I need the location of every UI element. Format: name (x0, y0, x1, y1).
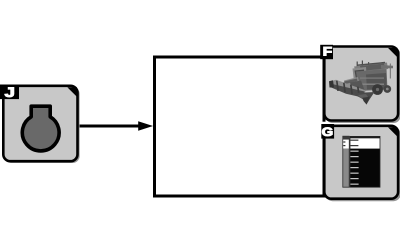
icon box G (324, 126, 400, 201)
header end plate (329, 80, 334, 87)
grain tank rail (357, 62, 385, 66)
front wheel hub (376, 88, 379, 91)
fill level gauge icon (icon in box G) (343, 136, 380, 187)
wire (arrow shaft from box J to rectangle) (78, 125, 140, 128)
grain tank top (354, 63, 388, 73)
front wheel (372, 84, 383, 95)
unloading auger line (381, 65, 393, 69)
arrowhead (138, 121, 153, 130)
beard tip (363, 97, 371, 105)
body (356, 69, 388, 91)
white ticks on black area (350, 151, 358, 152)
gauge body (350, 136, 380, 187)
label G (321, 124, 334, 139)
body texture lines (358, 84, 384, 85)
cab (353, 67, 368, 82)
cab window (355, 70, 365, 80)
header light top edge (330, 80, 367, 93)
white gap patch between box F and box G (321, 122, 327, 125)
svg-text:J: J (5, 85, 15, 101)
reel and auger mass between header and body (344, 77, 360, 89)
gauge top dark strip (350, 136, 380, 138)
rear wheel hub (386, 88, 389, 91)
reel dark streak (344, 79, 358, 85)
grain tank dark inner (360, 64, 385, 72)
scale bar white top section (343, 140, 349, 149)
scale bar tiny marks (343, 141, 345, 142)
label J (0, 85, 19, 101)
corner fold triangle (box G) (388, 127, 398, 137)
feeder house (350, 81, 365, 94)
straw mottle (358, 94, 368, 98)
display rectangle (white screen box) (155, 57, 325, 196)
svg-text:G: G (322, 125, 333, 139)
rear wheel (383, 85, 391, 93)
scale bar dark top cap (343, 136, 349, 139)
scale bar outline (343, 136, 349, 187)
combine harvester photo (icon in box F) (329, 61, 393, 105)
right thin mast (390, 64, 391, 79)
body dark side panel (366, 73, 387, 90)
icon box F (324, 47, 400, 124)
corner fold triangle (box J) (67, 87, 77, 97)
svg-text:F: F (323, 45, 332, 58)
antenna masts above cab (357, 62, 358, 70)
reel tine lines (336, 81, 339, 91)
dark ticks on white band (350, 140, 358, 141)
icon box J (3, 86, 79, 163)
corner fold triangle (box F) (388, 48, 398, 58)
header (cutting platform) (330, 84, 365, 98)
dark shape below (straw shadow) (355, 92, 375, 105)
gauge white empty band (350, 138, 379, 148)
label F (320, 45, 333, 59)
grain tank symbol (icon in box J) (22, 106, 59, 151)
